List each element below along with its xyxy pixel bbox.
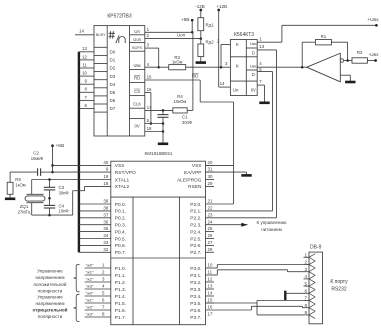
wire +Uvx line [282,24,377,26]
ground opamp ref [349,75,351,82]
ground R5 [9,194,11,199]
node output junction [346,59,349,62]
svg-text:P2.5.: P2.5. [190,236,201,242]
DB9 pin 3 [304,271,310,273]
svg-text:-Uвх: -Uвх [368,52,379,58]
svg-text:XTAL1: XTAL1 [115,177,130,183]
svg-text:P0.1.: P0.1. [115,209,126,215]
DB9 pin 8 [304,307,310,309]
svg-text:"ж0": "ж0" [86,263,94,268]
wire switch pin13 down to P2.2 [257,49,276,51]
svg-text:30: 30 [208,174,213,179]
svg-text:22: 22 [208,206,213,211]
node Rd1/Rd2 junction [200,37,203,40]
DB9 pin 1 [304,256,310,258]
svg-text:P2.1.: P2.1. [190,209,201,215]
svg-text:К564КТ3: К564КТ3 [234,32,254,38]
wire CLK pin17 [145,109,173,111]
svg-text:P2.4.: P2.4. [190,229,201,235]
svg-text:P2.3.: P2.3. [190,223,201,229]
ADC pin 8 D5 [79,91,94,93]
MCU pin 30 ALE/PROG [206,179,215,181]
svg-text:30пФ: 30пФ [182,120,192,125]
svg-text:Uвх: Uвх [250,41,257,46]
wire R3 to switch pin3 [186,66,221,68]
svg-text:"ж3": "ж3" [86,284,94,289]
svg-text:напряжением: напряжением [35,301,64,306]
svg-text:P0.4.: P0.4. [115,229,126,235]
svg-text:10: 10 [82,71,87,76]
DB9 pin 5 [304,285,310,287]
svg-text:D7: D7 [110,106,116,111]
svg-text:отрицательной: отрицательной [33,307,68,313]
MCU pin 37 P0.2 [79,217,111,219]
ground ADC 0V [162,124,164,144]
node +5V / Un junction [191,31,194,34]
node opamp input [301,66,304,69]
svg-text:C1: C1 [182,114,188,119]
svg-text:10: 10 [208,263,213,268]
ADC pin 6 D7 [79,108,94,110]
svg-text:+5В: +5В [181,17,190,23]
wire R4 to +5V [192,32,194,110]
svg-text:26: 26 [208,233,213,238]
wire XTAL2 path [72,191,74,215]
wire switch pin4 to opamp [257,66,307,68]
svg-text:BOFS: BOFS [132,46,142,50]
ADC pin 7 D6 [79,99,94,101]
svg-text:RS232: RS232 [331,286,347,292]
resistor R2 [352,58,367,63]
MCU pin 36 P0.3 [79,224,111,226]
MCU pin 31 EA/VPP [206,171,215,173]
svg-text:ALE/PROG: ALE/PROG [177,177,202,183]
wire P3.1 to DB9 pin3 [206,274,218,276]
wire feedback top [331,41,347,43]
node -Uvx terminal [374,59,377,62]
svg-text:P1.7.: P1.7. [115,315,126,321]
svg-text:10пФ: 10пФ [59,209,69,214]
svg-text:P2.7.: P2.7. [190,250,201,256]
wire VSS pin20 [206,164,234,166]
wire P3.6 to DB9 pin7/9 [206,302,258,304]
wire tie pin2-pin3 [220,45,222,68]
svg-text:15: 15 [208,298,213,303]
svg-text:CLK: CLK [133,102,141,107]
wire R4 right [187,109,193,111]
svg-text:КР572ПВ3: КР572ПВ3 [107,14,132,20]
svg-text:27: 27 [208,240,213,245]
svg-text:2: 2 [304,260,307,265]
svg-text:P3.7.: P3.7. [190,315,201,321]
svg-text:12: 12 [208,277,213,282]
svg-text:14: 14 [208,291,213,296]
wire feedback left [301,42,303,67]
svg-text:4: 4 [304,274,307,279]
svg-text:+5В: +5В [56,143,65,149]
svg-text:P3.4.: P3.4. [190,294,201,300]
wire Rd1 to Rd2 [200,31,202,44]
svg-text:D2: D2 [110,66,116,71]
svg-text:1кОм: 1кОм [172,59,182,64]
svg-text:25: 25 [208,226,213,231]
svg-text:18: 18 [103,181,108,186]
svg-text:P3.2.: P3.2. [190,280,201,286]
svg-text:P1.3.: P1.3. [115,287,126,293]
resistor R5 [9,172,11,182]
bracket positive [74,264,80,292]
wire Un pin1 line [145,31,192,33]
MCU pin 35 P0.4 [79,231,111,233]
ADC pin 14 BUSY [75,34,94,36]
svg-text:P0.7.: P0.7. [115,250,126,256]
svg-text:29: 29 [208,181,213,186]
ADC pin 10 D3 [79,75,94,77]
svg-text:1кОм: 1кОм [15,182,25,187]
svg-text:P1.6.: P1.6. [115,308,126,314]
capacitor C2 [37,168,39,176]
svg-text:11: 11 [208,270,213,275]
wire XTAL1 line [32,179,111,181]
svg-text:38: 38 [103,206,108,211]
ADC U1 KR572PV3 body [94,26,145,136]
svg-text:Управление: Управление [37,294,63,299]
svg-text:КМ1816ВЕ51: КМ1816ВЕ51 [145,151,173,156]
svg-text:8: 8 [304,303,307,308]
wire feedback right [347,42,349,60]
svg-text:полярности: полярности [38,288,63,293]
svg-text:1: 1 [304,253,307,258]
wire P2.0 pin21 [206,203,234,205]
node CLK/C1 [162,109,165,112]
svg-text:BUSY: BUSY [96,33,106,37]
node +Uvx terminal [375,24,378,27]
wire RD down to P2.0 [233,102,235,204]
svg-text:D: D [252,51,255,56]
DB9 pin 4 [304,278,310,280]
switch U2 K564KT3 body [230,40,257,96]
svg-text:0V: 0V [251,88,256,93]
svg-text:"ж1": "ж1" [86,270,94,275]
svg-text:К порту: К порту [330,279,348,285]
wire CS pin16 [145,92,151,94]
ADC analog-digital symbol [109,31,115,38]
svg-text:12: 12 [82,54,87,59]
wire to pin 14 [219,86,231,88]
svg-text:D5: D5 [110,90,116,95]
svg-text:Rд1: Rд1 [206,23,215,28]
wire P3.0 to DB9 pin2 [206,267,218,269]
wire -12V to Rd1 [200,10,202,18]
svg-text:34: 34 [103,233,108,238]
svg-text:VSS: VSS [192,163,202,169]
ADC right field cells [130,34,145,36]
svg-text:"ж2": "ж2" [86,277,94,282]
svg-text:D1: D1 [110,58,116,63]
wire +5V down [191,20,193,32]
svg-text:P3.3.: P3.3. [190,287,201,293]
MCU pin 29 RSEN [206,185,215,187]
svg-text:P0.5.: P0.5. [115,236,126,242]
svg-text:RD: RD [134,76,140,81]
svg-text:14: 14 [79,29,84,34]
wire pin 2 stub [221,44,230,46]
resistor Rd2 [198,44,204,57]
svg-text:"ж0": "ж0" [86,291,94,296]
wire RD net [145,79,200,81]
ADC pin 11 D2 [79,67,94,69]
terminator bar DB9 pin6 [284,291,286,301]
node +5V terminal 2 [51,144,54,147]
node pin18/gnd [162,130,165,133]
svg-text:13: 13 [208,284,213,289]
wire to -Uvx [367,60,375,62]
ADC pin 13 D0 [79,51,94,53]
MCU pin 38 P0.1 [79,210,111,212]
svg-text:питанием: питанием [261,227,281,232]
svg-text:Управление: Управление [37,269,63,274]
resistor Rd1 [198,18,204,31]
svg-text:33: 33 [103,240,108,245]
svg-text:32: 32 [103,247,108,252]
svg-text:P1.1.: P1.1. [115,273,126,279]
svg-text:Un: Un [233,88,239,93]
wire crystal bottom [32,214,73,216]
svg-text:полярности: полярности [38,314,63,319]
svg-text:положительной: положительной [33,281,66,287]
svg-text:19: 19 [103,174,108,179]
ADC pin 12 D1 [79,59,94,61]
crystal ZQ1 [31,180,33,195]
svg-text:14: 14 [220,81,225,86]
MCU pin 33 P0.6 [79,244,111,246]
DB9 pin 2 [304,264,310,266]
wire Uvx pin4 line [145,66,169,68]
svg-text:K: K [236,42,239,47]
svg-text:P1.0.: P1.0. [115,266,126,272]
svg-text:Rд2: Rд2 [206,40,215,45]
wire +5V down [52,146,54,172]
wire P2.3 power ctl arrow [206,224,248,226]
svg-text:18: 18 [147,126,152,131]
svg-text:XTAL2: XTAL2 [115,184,130,190]
svg-text:10кОм: 10кОм [174,99,187,104]
svg-text:39: 39 [103,199,108,204]
svg-text:ZQ1: ZQ1 [20,204,29,209]
ADC data bus [78,52,80,253]
svg-text:40: 40 [103,160,108,165]
wire switch pin5 down to P2.1 [257,71,272,73]
svg-text:23: 23 [208,212,213,217]
svg-text:P1.5.: P1.5. [115,301,126,307]
svg-text:36: 36 [103,219,108,224]
node VSS tap [51,164,54,167]
wire opamp gnd ref [340,74,350,76]
wire +12V down to switch pin14 [218,10,220,87]
svg-text:Un: Un [134,29,140,34]
svg-text:"ж2": "ж2" [86,305,94,310]
svg-text:16: 16 [147,87,152,92]
svg-text:P0.0.: P0.0. [115,202,126,208]
wire pin 3 stub [221,66,230,68]
node C1/0V [162,122,165,125]
svg-text:VSS: VSS [115,163,125,169]
svg-text:RST/VPO: RST/VPO [115,170,136,176]
node CS to 0V [150,122,153,125]
MCU pin 34 P0.5 [79,238,111,240]
svg-text:24: 24 [208,219,213,224]
MCU pin 32 P0.7 [79,251,111,253]
svg-text:20: 20 [208,160,213,165]
svg-text:15: 15 [147,75,152,80]
svg-text:P1.4.: P1.4. [115,294,126,300]
ground EA/VPP [246,172,248,175]
svg-text:P3.0.: P3.0. [190,266,201,272]
svg-text:10мкФ: 10мкФ [31,156,44,161]
capacitor C4 [49,198,51,205]
svg-text:11: 11 [82,62,87,67]
wire 0V pins 5,18 [145,123,163,125]
wire P3.7 to DB9 pin8 [206,309,252,311]
svg-text:D3: D3 [110,74,116,79]
svg-text:К управлению: К управлению [257,220,288,225]
resistor R3 [169,65,186,70]
wire EA/VPP to ground [206,171,247,173]
svg-text:3: 3 [304,267,307,272]
node RST tap [51,171,54,174]
svg-text:0V: 0V [135,123,140,128]
svg-text:9: 9 [304,310,307,315]
svg-text:27МГц: 27МГц [18,210,31,215]
svg-text:28: 28 [208,247,213,252]
svg-text:13: 13 [259,44,264,49]
resistor R4 [173,108,187,113]
DB9 pin 9 [304,314,310,316]
svg-text:"ж1": "ж1" [86,298,94,303]
svg-text:R1: R1 [321,34,327,39]
svg-text:напряжением: напряжением [35,275,64,280]
svg-text:D6: D6 [110,98,116,103]
svg-text:Uвх: Uвх [134,63,141,68]
svg-text:+Uвх: +Uвх [367,17,379,23]
svg-text:P3.6.: P3.6. [190,308,201,314]
resistor R1 [315,40,331,45]
svg-text:P2.6.: P2.6. [190,243,201,249]
svg-text:CS: CS [134,89,140,94]
svg-text:P0.3.: P0.3. [115,223,126,229]
svg-text:21: 21 [208,199,213,204]
svg-text:DB-9: DB-9 [310,244,322,250]
svg-text:P3.1.: P3.1. [190,273,201,279]
wire Uop pin2 line [145,38,201,40]
wire opamp out [344,60,352,62]
svg-text:16: 16 [208,305,213,310]
wire to VSS pin40 [53,164,111,166]
wire BOFS pin3 [145,47,159,49]
svg-text:5: 5 [304,281,307,286]
svg-text:17: 17 [208,312,213,317]
DB9 pin 7 [304,300,310,302]
wire pin6 stub [285,292,303,294]
ground under Rd2 [200,57,202,63]
svg-text:D4: D4 [110,82,116,87]
ground switch 0V [264,85,266,103]
op-amp A1 [307,53,341,82]
node C3/C4 [48,197,51,200]
svg-text:31: 31 [208,167,213,172]
MCU pin 39 P0.0 [79,203,111,205]
svg-text:30пФ: 30пФ [59,190,69,195]
capacitor C1 [162,110,164,114]
svg-text:D: D [252,72,255,77]
DB9 pin 6 [304,292,310,294]
node C3 tap [48,178,51,181]
svg-text:R2: R2 [357,50,363,55]
svg-text:P2.2.: P2.2. [190,216,201,222]
node control junction [220,66,223,69]
svg-text:K: K [236,64,239,69]
connector X1 DB-9 [309,252,323,324]
svg-text:Uоп: Uоп [177,32,186,37]
svg-text:D0: D0 [110,50,116,55]
svg-text:35: 35 [103,226,108,231]
svg-text:P3.5.: P3.5. [190,301,201,307]
node +5V terminal [191,19,194,22]
MCU pin 20 VSS [206,164,215,166]
svg-text:6: 6 [304,289,307,294]
svg-text:-12В: -12В [195,4,205,9]
svg-text:Uоп: Uоп [133,37,140,42]
svg-text:P0.2.: P0.2. [115,216,126,222]
bracket negative [74,294,80,321]
wire switch pin7 to ground [257,84,264,86]
node BOFS/Uvx junction [157,66,160,69]
svg-text:13: 13 [82,46,87,51]
node C4 bottom [48,214,51,217]
svg-text:Uвх: Uвх [250,64,257,69]
capacitor C3 [49,180,51,188]
wire switch pin1 to +Uvx [257,41,282,43]
svg-text:RSEN: RSEN [188,184,202,190]
ADC pin 9 D4 [79,83,94,85]
svg-text:P0.6.: P0.6. [115,243,126,249]
svg-text:7: 7 [304,296,307,301]
MCU U3 KM1816VE51 body [111,161,206,325]
svg-text:P2.0.: P2.0. [190,202,201,208]
svg-text:37: 37 [103,212,108,217]
svg-text:EA/VPP: EA/VPP [184,170,201,176]
svg-text:+12В: +12В [216,4,227,9]
svg-text:"ж3": "ж3" [86,312,94,317]
wire RST line [41,171,53,173]
svg-text:P1.2.: P1.2. [115,280,126,286]
